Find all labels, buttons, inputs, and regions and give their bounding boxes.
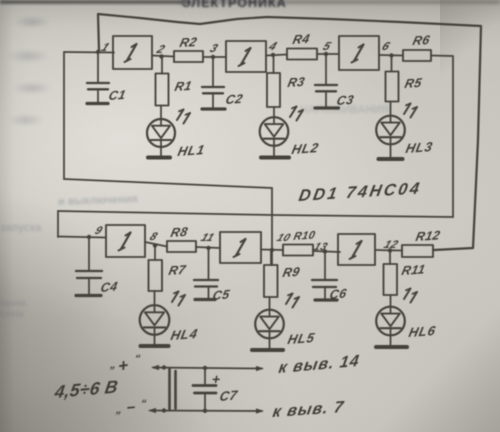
svg-text:R2: R2 <box>178 34 198 50</box>
node: pin 2 junction <box>159 54 163 58</box>
wire: pin 1 input net (left segment through pin 1) <box>64 51 114 54</box>
label: minus terminal <box>114 398 147 417</box>
svg-text:R3: R3 <box>286 74 306 90</box>
node: pin 6 junction <box>389 53 393 57</box>
inverter U1.6 (pins 13-12) <box>338 234 375 265</box>
svg-text:4,5÷6 В: 4,5÷6 В <box>52 376 119 402</box>
capacitor C5 <box>194 248 232 303</box>
inverter U1.2 (pins 3-4) <box>226 41 266 72</box>
node: pin 13 junction <box>323 249 327 253</box>
wire: U1.3 output to pin 6 node <box>379 54 403 57</box>
resistor R11 <box>384 251 427 296</box>
capacitor C4 <box>76 237 119 296</box>
resistor R6 <box>403 32 432 61</box>
pin 8 label <box>148 231 160 242</box>
svg-text:R8: R8 <box>169 224 190 240</box>
wire: R8 to pin 11 <box>196 247 220 248</box>
wire: L line drop to pin 9 <box>57 211 59 237</box>
svg-text:3: 3 <box>208 42 221 55</box>
label: plus terminal <box>108 353 141 376</box>
LED HL5 <box>252 294 316 351</box>
svg-text:−: − <box>126 399 137 417</box>
wire: U1.5 output to pin 10 node <box>261 249 283 252</box>
svg-text:R4: R4 <box>291 31 311 47</box>
LED HL2 <box>260 107 321 158</box>
node: pin 5 junction <box>324 52 328 56</box>
svg-text:R12: R12 <box>414 227 442 244</box>
inverter U1.1 (pins 1-2) <box>113 36 152 69</box>
capacitor C7 (polarized) <box>193 368 239 411</box>
svg-text:HL2: HL2 <box>290 140 320 157</box>
resistor R2 <box>174 34 203 62</box>
svg-text:+: + <box>210 371 221 387</box>
svg-text:C2: C2 <box>224 91 244 107</box>
wire: vertical from feedback line down to pin 10 node <box>271 188 273 265</box>
pin 9 label <box>93 225 105 236</box>
svg-text:HL4: HL4 <box>169 326 199 343</box>
svg-text:R11: R11 <box>400 261 427 278</box>
svg-text:12: 12 <box>382 239 400 250</box>
wire: U1.1 output to pin2 node <box>152 56 174 57</box>
pin 3 label <box>208 42 221 55</box>
svg-text:4: 4 <box>266 40 280 53</box>
resistor R12 <box>402 227 442 257</box>
resistor R3 <box>267 55 306 107</box>
svg-text:R1: R1 <box>173 78 193 94</box>
LED HL6 <box>376 289 437 348</box>
wire: outer feedback loop - top border, right edge down to R12 net <box>98 14 481 250</box>
node: pin 12 junction <box>388 248 392 252</box>
svg-text:к выв. 14: к выв. 14 <box>277 352 361 377</box>
node: pin 1 junction <box>96 50 100 54</box>
LED HL1 <box>147 106 206 159</box>
bleed-through newsprint artifacts <box>182 0 302 12</box>
resistor R1 <box>156 57 194 106</box>
resistor R9 <box>264 250 302 297</box>
resistor R7 <box>149 246 188 292</box>
node: pin 4 junction <box>271 53 275 57</box>
svg-text:R7: R7 <box>167 262 188 278</box>
node: pin 8 junction <box>153 243 157 247</box>
svg-text:„: „ <box>114 404 123 416</box>
inverter U1.3 (pins 5-6) <box>339 36 379 70</box>
svg-text:10: 10 <box>275 232 293 243</box>
svg-text:2: 2 <box>154 43 168 56</box>
inverter U1.4 (pins 9-8) <box>106 225 145 257</box>
wire: left vertical of inner feedback loop <box>63 52 65 179</box>
wire: positive supply rail <box>151 365 264 371</box>
capacitor C1 <box>87 52 127 104</box>
inverter U1.5 (pins 11-10) <box>220 232 261 263</box>
svg-text:HL3: HL3 <box>404 139 434 156</box>
pin 2 label <box>154 43 168 56</box>
svg-text:8: 8 <box>148 231 160 242</box>
pin 13 label <box>312 241 330 252</box>
node: pin 11 junction <box>206 246 210 250</box>
svg-text:HL5: HL5 <box>286 330 316 347</box>
resistor R8 <box>167 224 196 252</box>
IC reference DD1 74HC04 <box>297 179 423 205</box>
resistor R4 <box>287 31 317 60</box>
wire: R4 to pin 5 <box>317 53 339 55</box>
wire: pin 9 input net <box>58 237 106 238</box>
node: pin 3 junction <box>211 55 215 59</box>
wire: U1.6 output to pin 12 node <box>375 249 402 252</box>
wire: U1.2 output to pin 4 node <box>266 55 287 56</box>
node: pin 10 junction <box>270 248 274 252</box>
pin 1 label <box>99 41 113 54</box>
svg-text:C3: C3 <box>335 92 355 108</box>
pin 11 label <box>199 232 217 243</box>
wire: R6 output to feedback line <box>431 56 453 218</box>
svg-text:HL6: HL6 <box>407 323 437 340</box>
svg-text:R5: R5 <box>403 75 424 91</box>
svg-text:C4: C4 <box>99 279 119 295</box>
svg-text:5: 5 <box>321 40 334 53</box>
svg-text:C6: C6 <box>328 285 348 302</box>
wire: R2 to pin 3 <box>203 56 226 58</box>
svg-text:“: “ <box>139 398 147 410</box>
wire: long feedback line L (pin9 net across page) <box>58 211 453 217</box>
pin 5 label <box>321 40 334 53</box>
svg-text:+: + <box>118 354 129 376</box>
wire: negative supply rail <box>148 408 264 414</box>
capacitor C6 <box>312 252 349 303</box>
pin 12 label <box>382 239 400 250</box>
label: to pin 7 <box>271 398 345 421</box>
svg-text:11: 11 <box>199 232 217 243</box>
svg-text:9: 9 <box>93 225 105 236</box>
svg-text:„: „ <box>108 359 117 371</box>
wire: U1.4 output to pin 8 node <box>145 242 167 247</box>
resistor R10 <box>283 229 317 255</box>
pin 6 label <box>380 40 393 53</box>
label: to pin 14 <box>277 352 361 377</box>
svg-text:DD1 74HC04: DD1 74HC04 <box>297 179 423 205</box>
svg-text:R9: R9 <box>281 264 302 280</box>
svg-text:R6: R6 <box>411 32 432 48</box>
svg-text:R10: R10 <box>292 229 316 242</box>
capacitor C2 <box>202 57 244 109</box>
node: pin 9 junction <box>87 235 91 239</box>
svg-text:“: “ <box>133 353 141 365</box>
pin 4 label <box>266 40 280 53</box>
svg-text:C7: C7 <box>218 387 239 404</box>
svg-text:C1: C1 <box>107 87 127 103</box>
label: battery voltage 4,5..6 V <box>52 376 119 402</box>
resistor R5 <box>386 56 424 102</box>
wire: R10 to pin 13 <box>313 251 340 252</box>
LED HL4 <box>140 291 200 346</box>
wire: inner feedback horizontal (left, y~183) <box>64 179 272 188</box>
svg-text:C5: C5 <box>211 286 231 303</box>
svg-text:6: 6 <box>380 40 393 53</box>
pin 10 label <box>275 232 293 243</box>
svg-text:HL1: HL1 <box>176 142 206 159</box>
LED HL3 <box>376 102 434 160</box>
capacitor C3 <box>315 54 355 108</box>
svg-text:к выв. 7: к выв. 7 <box>271 398 345 421</box>
battery GB1 4.5-6V <box>170 369 176 410</box>
